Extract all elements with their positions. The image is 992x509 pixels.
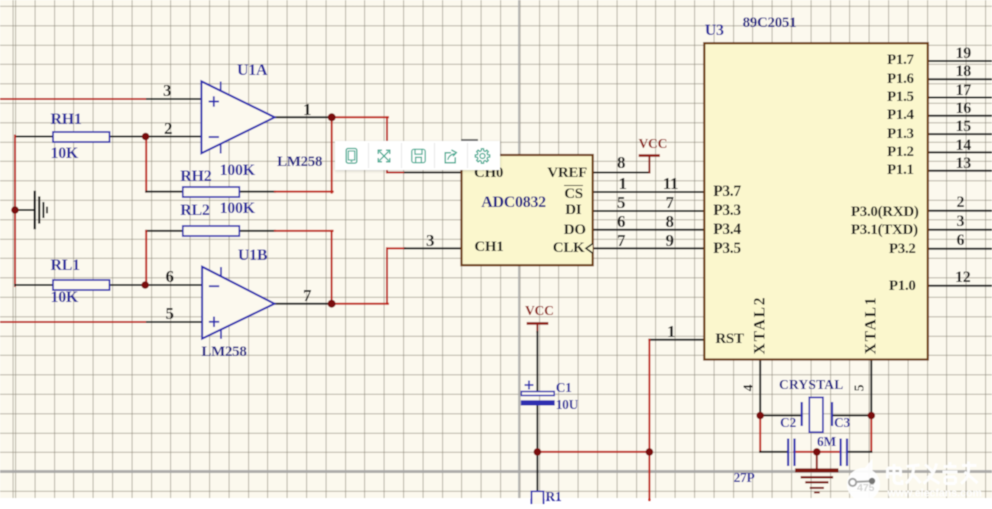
pin name CS with overline bbox=[564, 185, 583, 202]
pin name XTAL2 (rotated) bbox=[752, 296, 768, 355]
value 10K of RH1 bbox=[51, 146, 79, 162]
wire: XTAL1 pin vertical (black) bbox=[870, 360, 872, 416]
pin number 8 of ADC bbox=[617, 154, 625, 171]
resistor RH2 bbox=[183, 187, 240, 197]
pin number 6 of ADC bbox=[617, 213, 625, 230]
wire: left cap drop (red) bbox=[759, 416, 761, 452]
wire: DI row ADC to P3.3 (black) bbox=[593, 210, 705, 212]
value 10K of RL1 bbox=[51, 290, 79, 306]
icon: save bbox=[412, 149, 425, 162]
node: U1B pin6 bbox=[141, 281, 149, 289]
label C2 bbox=[780, 416, 796, 430]
wire: U1B junction to CH1 vertical (red) bbox=[332, 303, 388, 305]
pin number 7 of U1B bbox=[303, 287, 311, 304]
pin name P3.3 bbox=[713, 203, 741, 219]
wire: ground stub at crystal (maroon) bbox=[816, 452, 818, 469]
node: XTAL1 bbox=[868, 412, 876, 420]
pin name P1.5 bbox=[887, 90, 914, 105]
watermark text 电子发烧友 (stylized strokes) bbox=[888, 462, 978, 484]
pin name P1.3 bbox=[887, 127, 914, 142]
pin name P1.4 bbox=[887, 108, 914, 123]
wire: U1A pin2 junction down to RH2 (red) bbox=[145, 137, 147, 192]
wire: U1B pin5 stub (black) bbox=[147, 321, 202, 323]
label 89C2051 bbox=[743, 16, 797, 31]
wire: DO row ADC to P3.4 (black) bbox=[593, 229, 705, 231]
resistor RL2 bbox=[183, 226, 240, 236]
resistor RL1 bbox=[53, 280, 110, 290]
node: U1B pin7 bbox=[328, 300, 336, 308]
wire: U3 right pin wires (black) bbox=[928, 61, 992, 286]
wire: RL2 right to U1B output vertical (red) bbox=[275, 230, 333, 232]
pin number 5 of U1B bbox=[166, 305, 174, 322]
svg-text:475: 475 bbox=[857, 482, 875, 494]
label RL1 bbox=[51, 258, 80, 274]
wire: crystal row right (black) bbox=[832, 415, 871, 417]
pin number 13 bbox=[956, 156, 971, 172]
pin number 18 bbox=[956, 64, 971, 80]
node: C1 bottom bbox=[534, 448, 542, 456]
pin name P3.7 bbox=[713, 184, 741, 200]
overlay toolbar (image viewer) bbox=[335, 141, 500, 171]
pin number 3 at CH1 bbox=[426, 232, 434, 249]
wire: C1 junction row (red) bbox=[537, 451, 649, 453]
wire: VCC to C1 plate (black) bbox=[536, 332, 538, 392]
pin number 19 bbox=[956, 46, 971, 62]
node: ground tap bbox=[11, 206, 19, 214]
wire: CH1 jog (red) bbox=[387, 247, 405, 249]
label ADC0832 bbox=[481, 195, 546, 211]
icon: settings gear bbox=[475, 149, 489, 163]
label R1 bbox=[546, 490, 562, 504]
clipped designator U2 above ADC bbox=[461, 139, 478, 141]
pin name P3.2 bbox=[889, 242, 916, 257]
pin name P3.0(RXD) bbox=[851, 205, 919, 220]
pin number 6 bbox=[957, 233, 965, 249]
ground at crystal (maroon bars) bbox=[797, 470, 836, 492]
pin number 1 of U1A bbox=[303, 101, 311, 118]
icon: view on phone bbox=[346, 148, 357, 163]
pin number 3 of U1A bbox=[163, 82, 171, 99]
wire: left input pin5 (red) bbox=[0, 321, 147, 323]
wire: right cap drop (red) bbox=[870, 416, 872, 452]
wire: pin1 junction to ADC vertical (red) bbox=[332, 116, 388, 118]
icon: fullscreen arrows bbox=[378, 150, 390, 162]
label C3 bbox=[834, 416, 850, 430]
power VCC symbol at C1 bbox=[528, 323, 547, 332]
capacitor C1 (polarized) bbox=[521, 381, 554, 406]
wire: crystal row left (black) bbox=[760, 415, 802, 417]
label RL2 bbox=[180, 203, 209, 219]
wire: RL2 left vertical down to U1B pin6 (red) bbox=[145, 231, 147, 285]
wire: ground stub (black) bbox=[15, 209, 35, 211]
pin number 17 bbox=[956, 83, 971, 99]
wire: CLK row ADC to P3.5 (black) bbox=[593, 247, 705, 249]
wire: vertical down to CH0 row (red) bbox=[386, 117, 388, 172]
icon: share bbox=[445, 150, 456, 163]
wire: XTAL2 pin vertical (black) bbox=[759, 360, 761, 416]
pin number 2 of U1A bbox=[164, 120, 172, 137]
watermark elecfans bbox=[836, 450, 992, 509]
label U3 bbox=[705, 23, 724, 39]
wire: U1A pin3 stub (black) bbox=[147, 98, 201, 100]
wire: RST row (black) bbox=[649, 339, 704, 341]
pin name P3.4 bbox=[713, 222, 741, 238]
wire: far-left vertical bus (red) bbox=[14, 136, 16, 287]
node: U1A pin1 bbox=[328, 113, 336, 121]
pin number 9 of U3 bbox=[666, 232, 674, 249]
wire: CS row ADC to P3.7 (black) bbox=[593, 191, 705, 193]
value 27P bbox=[734, 471, 755, 485]
node: U1A pin2 bbox=[142, 133, 150, 141]
wire: RL1 row to U1B pin6 (black) bbox=[15, 284, 202, 286]
pin name P1.0 bbox=[889, 279, 916, 294]
power VCC symbol at VREF bbox=[640, 156, 659, 173]
wire: junction down to R1 (black) bbox=[536, 452, 538, 491]
svg-text:www.elecfans.com: www.elecfans.com bbox=[887, 488, 982, 500]
node: crystal ground bbox=[813, 448, 821, 456]
pin number 4 (rotated) bbox=[741, 385, 755, 391]
pin number 1 of RST bbox=[667, 323, 675, 340]
pin number 1 of ADC bbox=[619, 175, 627, 192]
pin number 8 of U3 bbox=[666, 213, 674, 230]
node: RST bbox=[646, 448, 654, 456]
wire: CH0 jog (red) bbox=[387, 172, 405, 174]
pin name RST bbox=[715, 332, 743, 347]
label LM258 of U1A bbox=[277, 155, 322, 170]
power label VCC at VREF bbox=[639, 137, 668, 151]
wire: CH1 stub (black) bbox=[405, 247, 462, 249]
watermark logo bubble bbox=[847, 459, 880, 502]
op-amp U1A bbox=[201, 81, 274, 153]
CLK input arrow on ADC bbox=[586, 244, 593, 254]
label CRYSTAL bbox=[779, 378, 843, 392]
pin name P1.1 bbox=[887, 163, 914, 178]
pin number 3 bbox=[957, 214, 965, 230]
wire: vertical up to CH1 row (red) bbox=[386, 248, 388, 303]
wire: feedback vertical RL2 to U1B output (red) bbox=[331, 231, 333, 304]
IC U3 89C2051 body bbox=[704, 43, 928, 359]
wire: RH2 row (black) bbox=[146, 191, 275, 193]
node: XTAL2 bbox=[756, 412, 764, 420]
label RH2 bbox=[180, 169, 211, 185]
capacitor C3 bbox=[841, 439, 847, 467]
wire: RH2 right to feedback vertical (red) bbox=[275, 191, 333, 193]
pin name CLK bbox=[553, 241, 585, 256]
pin name XTAL1 (rotated) bbox=[863, 296, 879, 355]
wire: RST vertical (red) bbox=[648, 340, 650, 500]
resistor RH1 bbox=[53, 132, 110, 142]
wire: RL2 row (black) bbox=[146, 230, 275, 232]
label LM258 of U1B bbox=[201, 345, 246, 360]
wire: cap row C3 right (black) bbox=[847, 451, 871, 453]
pin number 16 bbox=[956, 101, 971, 117]
pin name VREF bbox=[547, 166, 587, 181]
pin number 5 of ADC bbox=[617, 194, 625, 211]
pin number 15 bbox=[956, 119, 971, 135]
pin name P1.2 bbox=[887, 145, 914, 160]
pin name P3.5 bbox=[713, 241, 741, 257]
pin name P3.1(TXD) bbox=[851, 223, 918, 238]
pin name CH0 bbox=[474, 166, 503, 181]
pin number 11 of U3 bbox=[663, 175, 678, 192]
op-amp U1B bbox=[202, 267, 274, 339]
wire: cap row center (red) bbox=[794, 451, 841, 453]
resistor R1 (bottom, clipped) bbox=[532, 491, 544, 504]
label RH1 bbox=[51, 112, 82, 128]
pin number 7 of ADC bbox=[617, 232, 625, 249]
ground bbox=[35, 192, 47, 228]
pin name DO bbox=[564, 223, 586, 238]
pin number 14 bbox=[956, 138, 971, 154]
pin name P1.7 bbox=[887, 53, 914, 68]
wire: U1B output pin7 (black) bbox=[275, 303, 332, 305]
label U1A bbox=[237, 63, 267, 79]
wire: RH1 row through resistor to U1A pin2 (black) bbox=[15, 136, 201, 138]
value 10U bbox=[556, 398, 578, 412]
value 100K of RL2 bbox=[220, 201, 255, 217]
pin number 12 bbox=[955, 270, 970, 286]
pin number 7 of U3 bbox=[666, 194, 674, 211]
pin number 5 (rotated) bbox=[852, 385, 866, 391]
value 100K of RH2 bbox=[220, 163, 255, 179]
wire: CH0 stub (black) bbox=[405, 172, 462, 174]
pin number 6 of U1B bbox=[166, 268, 174, 285]
pin name P1.6 bbox=[887, 72, 914, 87]
capacitor C2 bbox=[788, 439, 794, 467]
crystal Y1 bbox=[802, 397, 832, 432]
IC U2 ADC0832 body bbox=[462, 155, 593, 265]
label U1B bbox=[238, 248, 267, 264]
wire: VREF to VCC (black) bbox=[593, 172, 650, 174]
power label VCC at C1 bbox=[525, 304, 554, 318]
label C1 bbox=[556, 381, 572, 395]
pin name DI bbox=[565, 203, 581, 218]
wire: U1A output pin1 (black) bbox=[275, 116, 332, 118]
pin name CH1 bbox=[474, 240, 503, 255]
wire: left input to U1A pin3 (red segment) bbox=[0, 98, 147, 100]
wire: cap row C2 left (black) bbox=[760, 451, 788, 453]
wire: feedback vertical pin1 to RH2 (red) bbox=[331, 117, 333, 192]
pin number 2 bbox=[957, 195, 965, 211]
wire: C1 to junction (black) bbox=[536, 405, 538, 452]
value 6M bbox=[817, 435, 836, 449]
